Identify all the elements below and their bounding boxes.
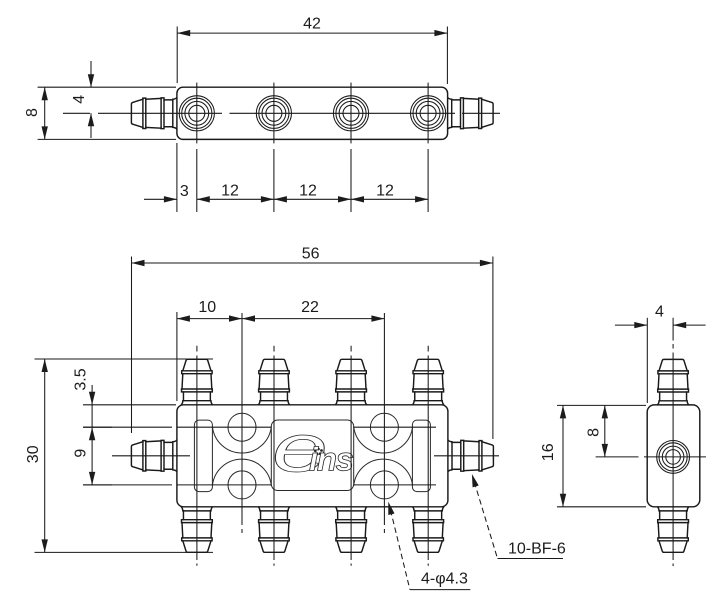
engraved U-curve above bottom-left hole: [212, 459, 271, 486]
top view horizontal centerline: [63, 112, 500, 114]
dimension 4 extension line (side view): [646, 318, 648, 403]
front view left side barb: [131, 440, 177, 472]
top view port 3: [333, 96, 368, 131]
top view port 4: [411, 96, 446, 131]
dimension 56 extension lines: [132, 257, 493, 440]
svg-text:4: 4: [71, 95, 88, 104]
top view port 1: [179, 96, 214, 131]
side view port: [657, 441, 690, 474]
svg-text:8: 8: [24, 108, 41, 117]
bottom dims of top view: extension lines: [177, 143, 428, 212]
front view top barb 3: [335, 359, 367, 405]
dimension 8 line (side view): [604, 405, 606, 457]
dimension 10-22 line: [177, 318, 385, 320]
dimension 3.5 and 9 line: [91, 385, 93, 485]
dimension 3-12-12-12 line: [144, 198, 428, 200]
svg-text:30: 30: [25, 445, 42, 463]
hole top-left: [228, 413, 256, 441]
dimension 3.5-9 extension lines: [83, 405, 176, 485]
hole bottom-left: [228, 471, 256, 499]
svg-text:ins: ins: [309, 441, 354, 478]
front view bottom barb 4: [412, 507, 444, 553]
side view horizontal centerline: [633, 456, 706, 458]
svg-text:8: 8: [585, 428, 602, 437]
dimension 30 extension lines: [35, 359, 214, 552]
svg-text:4: 4: [655, 304, 664, 321]
dimension 16 extension lines: [557, 405, 646, 506]
front view hole row centerline 1: [83, 426, 436, 428]
svg-text:56: 56: [302, 246, 320, 263]
svg-text:3.5: 3.5: [72, 368, 89, 390]
dimension 56 line: [132, 262, 493, 264]
front view bottom barb 3: [335, 507, 367, 553]
svg-text:4-φ4.3: 4-φ4.3: [421, 571, 468, 588]
svg-text:12: 12: [376, 183, 394, 200]
svg-text:12: 12: [221, 183, 239, 200]
top view port centerline 1: [196, 83, 198, 144]
svg-text:12: 12: [299, 183, 317, 200]
svg-text:10: 10: [198, 299, 216, 316]
front view top barb 2: [258, 359, 290, 405]
side view top barb: [657, 359, 689, 405]
leader 4-phi4.3: [385, 501, 394, 515]
dimension 8 line (top view left): [44, 87, 46, 139]
dimension 8 extension line (side view): [596, 456, 633, 458]
engraved U-curve below top-right hole: [354, 426, 413, 453]
top view left barb: [131, 97, 177, 129]
front view bottom barb 2: [258, 507, 290, 553]
dimension 16 line: [562, 405, 564, 506]
front view hole column centerline 2: [383, 313, 385, 533]
top view port centerline 2: [273, 83, 275, 144]
side view body: [647, 405, 700, 507]
front view top barb 1: [181, 359, 213, 405]
dimension 42 extension lines: [177, 27, 447, 85]
dimension 8 extension lines: [38, 87, 176, 139]
front view barb column centerline 2: [273, 346, 275, 566]
engraved U-curve below top-left hole: [212, 426, 271, 453]
front view barb column centerline 1: [196, 346, 198, 566]
side view bottom barb: [657, 507, 689, 553]
top view port centerline 4: [427, 83, 429, 144]
dimension 42 line: [177, 32, 447, 34]
front view middle centerline: [112, 455, 499, 457]
leader 10-BF-6: [469, 473, 479, 487]
front view body: [177, 405, 448, 507]
svg-text:42: 42: [303, 16, 321, 33]
svg-text:9: 9: [72, 449, 89, 458]
front view bottom barb 1: [181, 507, 213, 553]
dimension 30 line: [44, 359, 46, 552]
engraved left bar: [194, 420, 212, 492]
engraved center panel: [271, 420, 353, 491]
svg-text:16: 16: [540, 443, 557, 461]
front view hole column centerline 1: [241, 313, 243, 533]
top view port 2: [256, 96, 291, 131]
engraved right bar: [412, 420, 430, 492]
engraved U-curve above bottom-right hole: [354, 459, 413, 486]
front view right side barb: [448, 440, 494, 472]
svg-text:22: 22: [301, 299, 319, 316]
hole bottom-right: [370, 471, 398, 499]
dimension 10 and 22 extension lines: [176, 312, 178, 401]
front view barb column centerline 4: [427, 346, 429, 566]
dimension 4 (side view): [615, 324, 706, 326]
dimension 4 (top view) arrows: [90, 61, 92, 138]
logo paw print: [314, 448, 323, 456]
svg-text:10-BF-6: 10-BF-6: [508, 541, 566, 558]
svg-text:3: 3: [180, 183, 189, 200]
front view top barb 4: [412, 359, 444, 405]
top view right barb: [448, 97, 494, 129]
top view port centerline 3: [350, 83, 352, 144]
front view hole row centerline 2: [83, 484, 436, 486]
top view body: [177, 87, 448, 139]
logo e: [272, 411, 328, 487]
front view barb column centerline 3: [350, 346, 352, 566]
side view vertical centerline: [672, 318, 674, 566]
hole top-right: [370, 413, 398, 441]
